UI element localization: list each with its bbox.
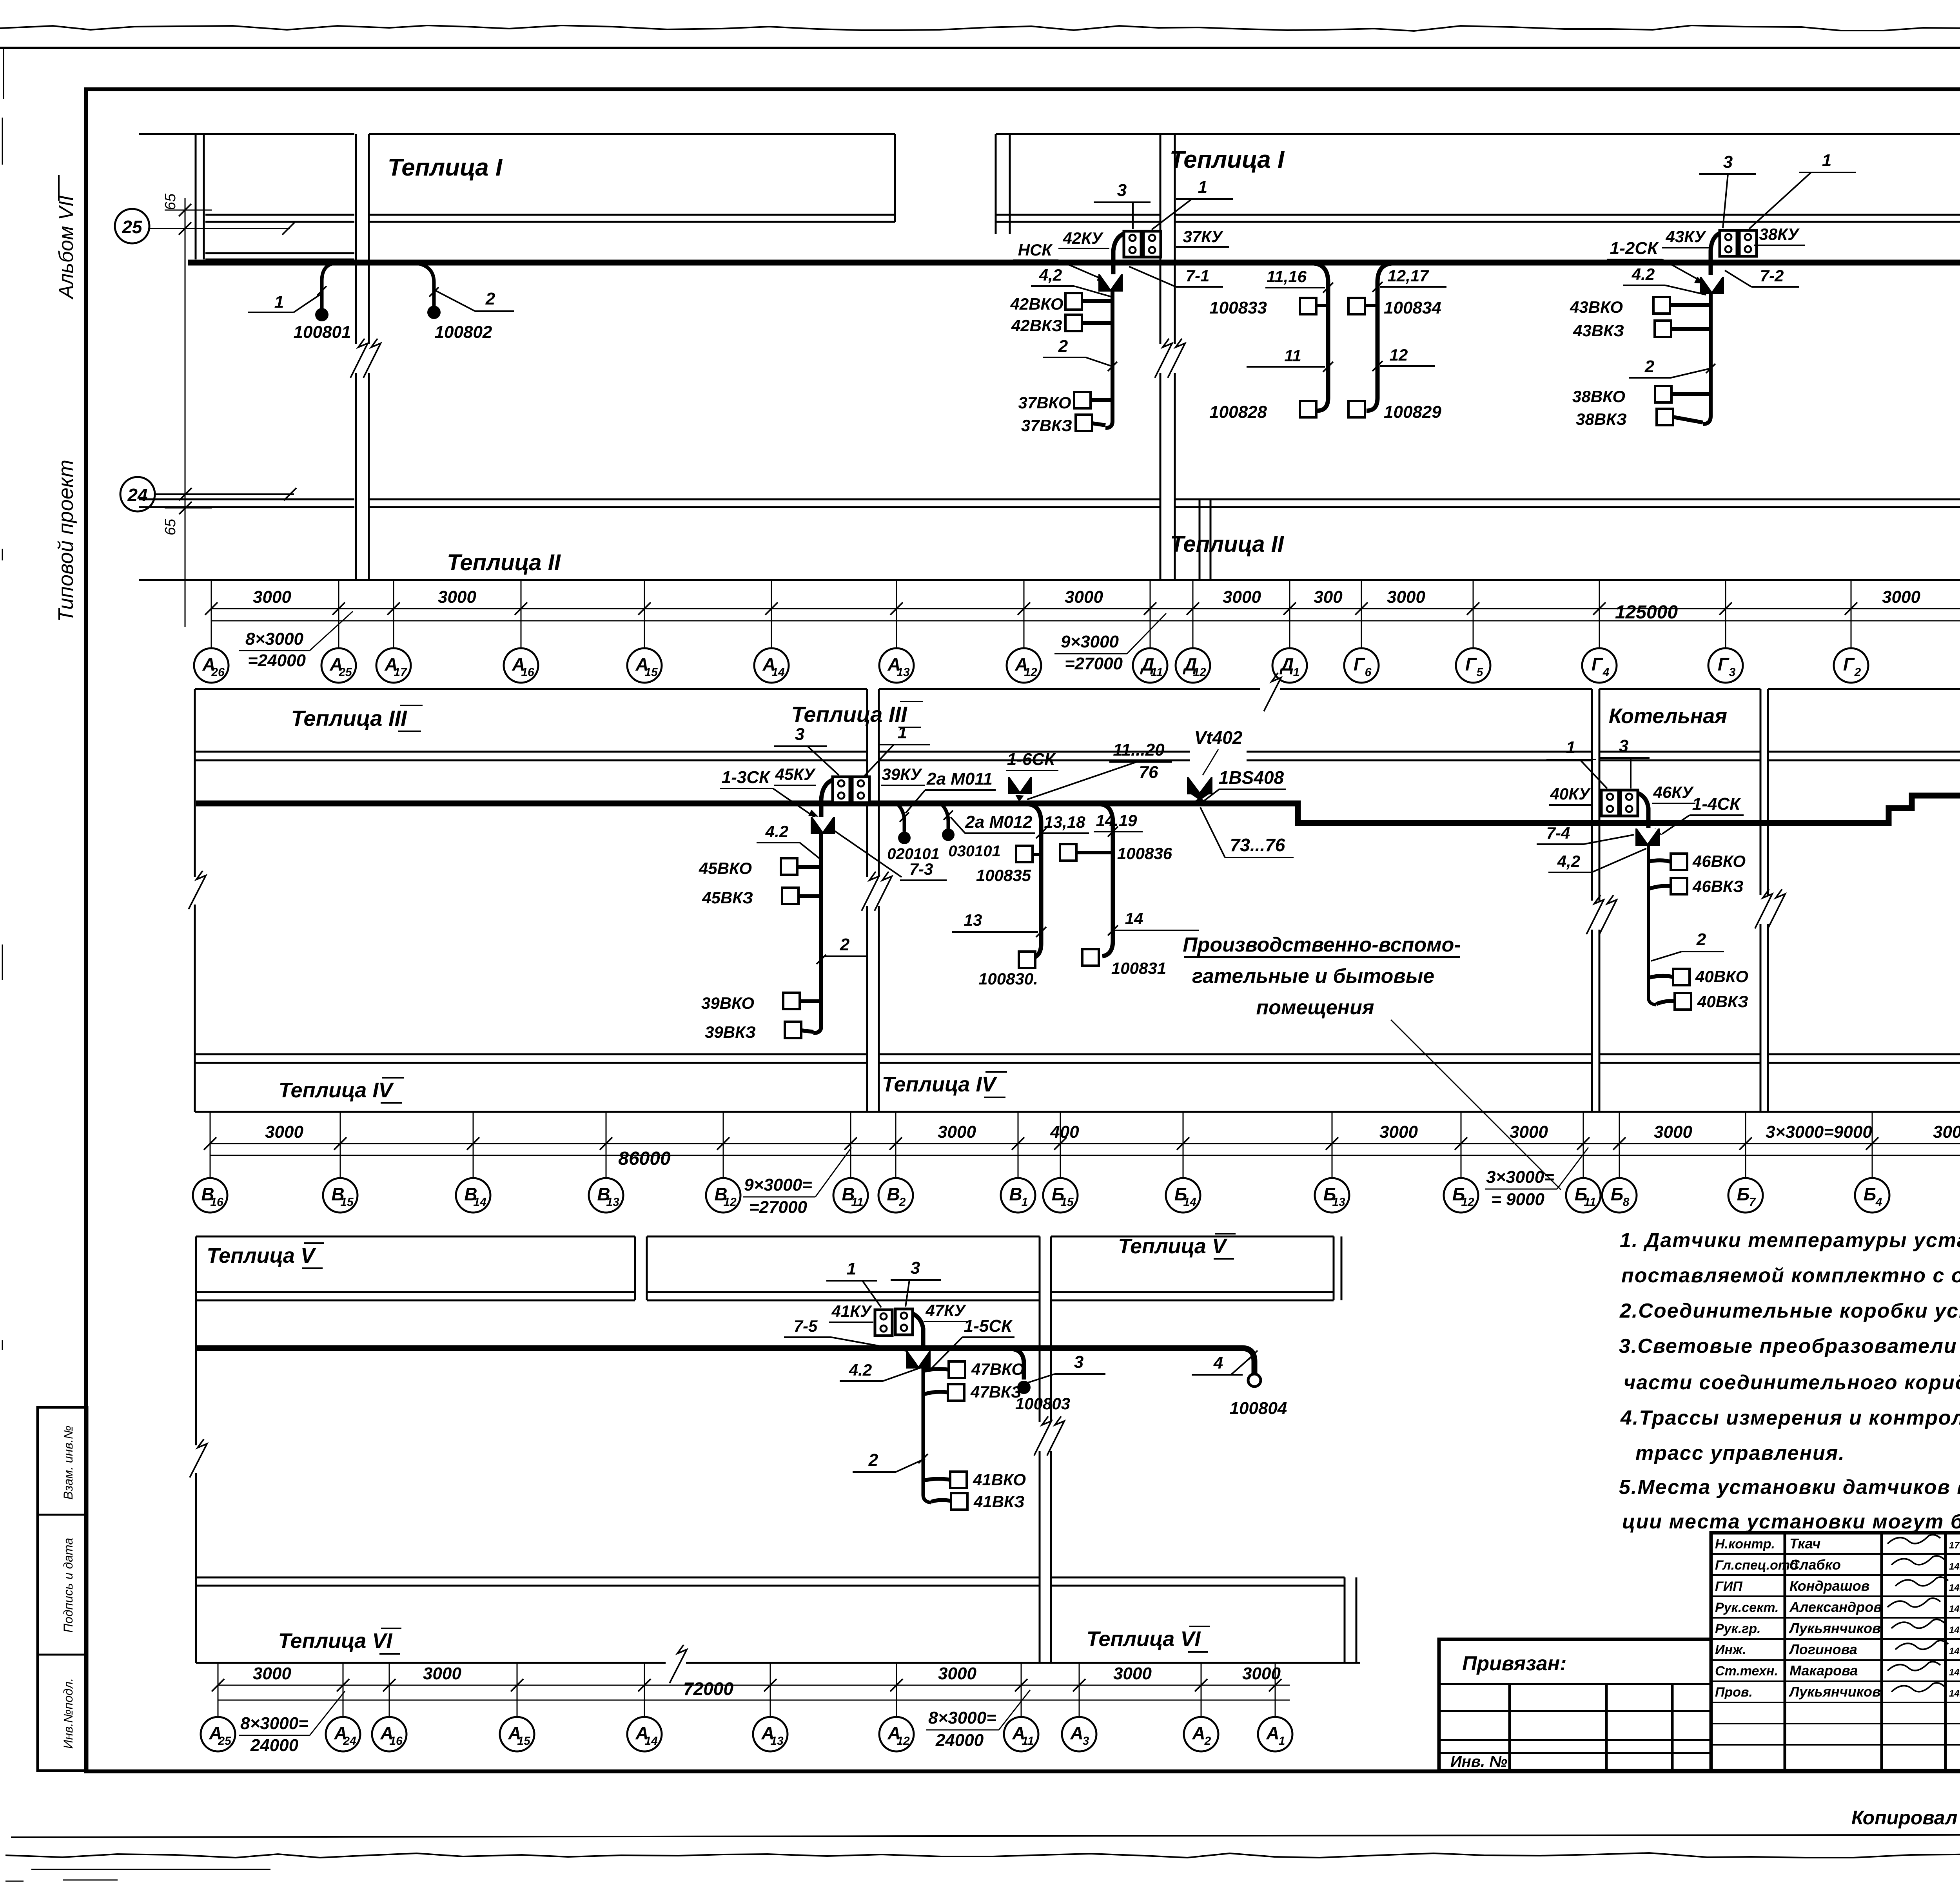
valve 1BS408 symbol: [1187, 777, 1212, 794]
svg-text:42КУ: 42КУ: [1063, 229, 1104, 247]
wire riser strip3: [923, 1369, 931, 1503]
svg-text:3000: 3000: [253, 587, 291, 607]
svg-text:4,2: 4,2: [1039, 266, 1062, 284]
svg-text:3: 3: [911, 1258, 920, 1278]
svg-text:100830.: 100830.: [978, 970, 1038, 988]
node axis А16: [372, 1717, 407, 1751]
svg-text:Типовой проект: Типовой проект: [54, 460, 78, 622]
sensor 43ВКЗ: [1655, 321, 1671, 337]
svg-text:1. Датчики температуры установ: 1. Датчики температуры установить по чер…: [1620, 1229, 1960, 1252]
node axis Б11: [1566, 1178, 1601, 1213]
svg-text:2: 2: [868, 1450, 878, 1470]
sensor 40ВКО: [1673, 969, 1690, 985]
sensor 46ВКО: [1671, 854, 1687, 870]
sensor 100829: [1348, 401, 1365, 417]
svg-text:= 9000: = 9000: [1491, 1190, 1544, 1209]
svg-text:11: 11: [1151, 666, 1163, 679]
node axis А1: [1258, 1717, 1292, 1751]
svg-text:В: В: [887, 1184, 900, 1204]
svg-text:3000: 3000: [265, 1122, 303, 1142]
wire to junction boxes 41/47: [897, 1310, 923, 1349]
sensor 39ВКО: [783, 993, 800, 1009]
svg-text:3×3000=9000: 3×3000=9000: [1766, 1122, 1872, 1142]
svg-text:73...76: 73...76: [1230, 835, 1285, 855]
cable tray strip2: [196, 796, 1960, 858]
wire drop 11,16: [1314, 263, 1328, 411]
svg-text:Vt402: Vt402: [1194, 727, 1243, 748]
node axis Б4: [1855, 1178, 1889, 1213]
junction box 41КУ: [875, 1310, 892, 1336]
wire riser cluster A: [1105, 290, 1112, 428]
node axis А26: [194, 648, 229, 683]
light sensor 1-2СК symbol: [1700, 277, 1724, 294]
svg-text:Г: Г: [1718, 654, 1730, 674]
svg-text:12: 12: [1193, 666, 1206, 679]
node axis Г3: [1708, 648, 1743, 683]
sensor dot 100802: [427, 306, 441, 319]
svg-text:Производственно-вспомо-: Производственно-вспомо-: [1183, 934, 1461, 956]
junction box 40КУ: [1601, 790, 1619, 816]
svg-text:Теплица III: Теплица III: [791, 702, 907, 727]
svg-text:7-2: 7-2: [1760, 266, 1784, 285]
title block привязан table: [1439, 1639, 1711, 1771]
svg-text:100804: 100804: [1230, 1399, 1287, 1418]
wire drop 14,19: [1101, 804, 1113, 956]
wire riser kotelnaya: [1648, 846, 1656, 1005]
svg-text:4,2: 4,2: [1557, 852, 1580, 870]
corridor walls 1 strip1: [355, 134, 357, 580]
svg-text:Инв. №: Инв. №: [1450, 1753, 1507, 1770]
svg-text:14: 14: [1125, 909, 1143, 928]
axis verticals row2: [210, 1112, 211, 1178]
svg-text:15: 15: [1060, 1196, 1074, 1209]
node axis А11: [1004, 1717, 1038, 1751]
svg-text:1: 1: [1822, 151, 1831, 170]
node axis 25: [115, 209, 149, 243]
svg-text:100836: 100836: [1117, 844, 1172, 863]
svg-text:24000: 24000: [250, 1736, 299, 1755]
svg-text:14: 14: [771, 666, 785, 679]
svg-text:1: 1: [1198, 178, 1207, 197]
svg-text:15: 15: [517, 1735, 531, 1748]
svg-text:14: 14: [644, 1735, 658, 1748]
left edge dashes: [2, 118, 3, 165]
wire drop 100803: [1012, 1349, 1024, 1380]
svg-text:Ткач: Ткач: [1789, 1535, 1820, 1552]
svg-text:1-4СК: 1-4СК: [1692, 794, 1741, 814]
svg-text:24: 24: [127, 485, 147, 505]
torn paper top edge: [0, 25, 1960, 31]
svg-text:12: 12: [1390, 346, 1408, 364]
svg-text:12: 12: [1461, 1196, 1474, 1209]
svg-text:100801: 100801: [294, 323, 351, 342]
svg-text:38КУ: 38КУ: [1759, 225, 1800, 243]
node axis В13: [589, 1178, 623, 1213]
light sensor НСК symbol: [1098, 274, 1123, 292]
svg-text:12: 12: [723, 1196, 737, 1209]
svg-text:А: А: [1070, 1723, 1083, 1743]
svg-text:Д: Д: [1279, 654, 1294, 674]
sensor 37ВКО: [1074, 392, 1091, 408]
light sensor 1-5СК symbol: [906, 1351, 931, 1369]
svg-text:24: 24: [343, 1735, 356, 1748]
light sensor 1-4СК symbol: [1635, 828, 1660, 846]
svg-text:Теплица IV: Теплица IV: [882, 1073, 998, 1096]
wall lower band double strip2: [195, 1053, 867, 1055]
sensor 45ВКО: [781, 858, 797, 875]
node axis А24: [326, 1717, 360, 1751]
svg-text:16: 16: [389, 1735, 403, 1748]
svg-text:3000: 3000: [938, 1122, 976, 1142]
svg-text:1-3СК: 1-3СК: [722, 768, 771, 787]
node axis Б13: [1315, 1178, 1349, 1213]
svg-text:47ВКЗ: 47ВКЗ: [970, 1383, 1022, 1401]
svg-text:2: 2: [840, 935, 850, 954]
node axis Б7: [1728, 1178, 1763, 1213]
svg-text:47КУ: 47КУ: [926, 1301, 967, 1320]
svg-text:3000: 3000: [1882, 587, 1920, 607]
node axis 24: [120, 477, 155, 511]
wire to junction boxes 45/39: [821, 778, 841, 817]
svg-text:3000: 3000: [1065, 587, 1103, 607]
svg-text:65: 65: [162, 518, 179, 535]
svg-text:12,17: 12,17: [1387, 266, 1429, 285]
svg-text:14: 14: [1183, 1196, 1196, 1209]
svg-text:100828: 100828: [1209, 402, 1267, 422]
sensor 41ВКЗ: [951, 1493, 967, 1510]
svg-text:6: 6: [1365, 666, 1372, 679]
svg-text:Теплица I: Теплица I: [388, 154, 503, 181]
svg-text:13: 13: [1332, 1196, 1345, 1209]
svg-text:Н.контр.: Н.контр.: [1715, 1537, 1775, 1552]
svg-text:25: 25: [122, 217, 143, 237]
corridor walls kotelnaya left: [1591, 689, 1593, 1112]
node axis Г6: [1344, 648, 1379, 683]
svg-text:7-3: 7-3: [909, 860, 933, 878]
svg-text:400: 400: [1050, 1122, 1079, 1142]
dimension lines row3: [218, 1685, 1290, 1686]
svg-text:Теплица VI: Теплица VI: [1087, 1627, 1201, 1651]
svg-text:14.01.86: 14.01.86: [1949, 1561, 1960, 1572]
svg-text:Гл.спец.отд: Гл.спец.отд: [1715, 1558, 1798, 1573]
svg-text:45ВКЗ: 45ВКЗ: [702, 888, 753, 907]
svg-text:3000: 3000: [1510, 1122, 1548, 1142]
svg-text:А: А: [1192, 1723, 1205, 1743]
svg-text:3.Световые преобразователи (д: 3.Световые преобразователи (датчики осве…: [1619, 1335, 1960, 1358]
svg-text:НСК: НСК: [1018, 241, 1053, 259]
wall left end lower double strip1: [205, 252, 354, 254]
svg-text:37КУ: 37КУ: [1183, 227, 1224, 246]
svg-text:Пров.: Пров.: [1715, 1685, 1753, 1700]
corridor walls 2 strip1: [1160, 134, 1161, 580]
svg-text:Александров: Александров: [1789, 1599, 1882, 1615]
svg-text:46ВКЗ: 46ВКЗ: [1692, 877, 1744, 896]
svg-text:65: 65: [162, 193, 179, 210]
svg-text:16: 16: [210, 1196, 223, 1209]
svg-text:39ВКЗ: 39ВКЗ: [705, 1023, 756, 1041]
svg-text:15: 15: [644, 666, 658, 679]
node axis А15: [627, 648, 662, 683]
sensor 100833: [1300, 298, 1316, 314]
svg-text:Рук.гр.: Рук.гр.: [1715, 1621, 1761, 1636]
svg-text:Г: Г: [1465, 654, 1477, 674]
wire to junction boxes 43/38: [1711, 231, 1728, 275]
axis verticals row1: [211, 580, 212, 647]
svg-text:100803: 100803: [1015, 1394, 1070, 1413]
node axis Б12: [1444, 1178, 1478, 1213]
wire sensor drop 1: [322, 263, 338, 310]
svg-text:14.01.86: 14.01.86: [1949, 1583, 1960, 1593]
wire sensor drop 2: [412, 263, 434, 308]
sensor 100834: [1348, 298, 1365, 314]
svg-text:Инж.: Инж.: [1715, 1642, 1746, 1657]
svg-text:3000: 3000: [1654, 1122, 1692, 1142]
wall lower band double strip1: [139, 499, 354, 500]
node axis А12: [879, 1717, 914, 1751]
node axis Б15: [1043, 1178, 1078, 1213]
svg-text:4: 4: [1602, 666, 1610, 679]
sensor 45ВКЗ: [782, 888, 799, 904]
junction box 43КУ: [1720, 230, 1737, 256]
light sensor 1-3СК symbol: [811, 817, 835, 834]
svg-text:Привязан:: Привязан:: [1462, 1652, 1566, 1675]
node axis А25: [201, 1717, 235, 1751]
svg-text:100831: 100831: [1111, 959, 1166, 977]
node axis Б14: [1166, 1178, 1200, 1213]
svg-text:100802: 100802: [435, 323, 492, 342]
dimension lines row1: [211, 608, 1960, 609]
light sensor 1-6СК symbol: [1008, 777, 1032, 794]
svg-text:1: 1: [1566, 738, 1575, 757]
sensor 42ВКЗ: [1065, 315, 1082, 331]
label Vt402: [1190, 743, 1247, 766]
svg-text:3000: 3000: [1223, 587, 1261, 607]
sensor dot 020101: [898, 832, 911, 844]
svg-text:8×3000: 8×3000: [245, 629, 304, 649]
wall top strip3: [196, 1236, 635, 1238]
svg-text:14: 14: [473, 1196, 486, 1209]
title block personnel table: [1711, 1533, 1960, 1771]
node axis А14: [754, 648, 789, 683]
svg-text:17: 17: [394, 666, 407, 679]
wire drop 13,18: [1029, 804, 1041, 959]
svg-text:38ВКО: 38ВКО: [1572, 387, 1625, 406]
node axis В11: [833, 1178, 868, 1213]
svg-text:3: 3: [1723, 152, 1733, 172]
svg-text:25: 25: [218, 1735, 232, 1748]
node axis Г2: [1834, 648, 1868, 683]
svg-text:72000: 72000: [683, 1679, 733, 1699]
svg-text:Лукьянчиков: Лукьянчиков: [1788, 1620, 1881, 1636]
node axis А12: [1007, 648, 1041, 683]
svg-text:Теплица III: Теплица III: [291, 706, 407, 731]
svg-text:Инв.№подл.: Инв.№подл.: [61, 1678, 75, 1749]
svg-text:40ВКЗ: 40ВКЗ: [1697, 992, 1748, 1011]
node axis А3: [1062, 1717, 1096, 1751]
svg-text:3000: 3000: [1933, 1122, 1960, 1142]
svg-text:13: 13: [964, 911, 982, 929]
wire riser cluster C: [1703, 292, 1711, 424]
svg-text:помещения: помещения: [1256, 996, 1374, 1019]
wire riser cluster 45/39: [813, 833, 821, 1033]
svg-text:Теплица II: Теплица II: [447, 550, 561, 575]
junction box 46КУ: [1621, 790, 1638, 816]
node axis В16: [193, 1178, 227, 1213]
svg-text:11: 11: [851, 1196, 863, 1209]
svg-text:3000: 3000: [938, 1664, 976, 1683]
node axis Б8: [1602, 1178, 1637, 1213]
svg-text:трасс управления.: трасс управления.: [1635, 1442, 1845, 1465]
torn paper bottom edge: [5, 1853, 1960, 1858]
svg-text:Теплица V: Теплица V: [207, 1244, 316, 1267]
svg-text:2: 2: [1696, 930, 1706, 949]
svg-text:7: 7: [1749, 1196, 1756, 1209]
wall left end strip1: [195, 134, 197, 259]
svg-text:Котельная: Котельная: [1609, 704, 1727, 728]
wall top strip1: [139, 133, 354, 135]
svg-text:3: 3: [1117, 181, 1127, 200]
svg-text:16: 16: [521, 666, 534, 679]
corridor walls strip3: [1039, 1236, 1041, 1663]
svg-text:3: 3: [1619, 736, 1628, 756]
svg-text:7-5: 7-5: [794, 1317, 818, 1335]
svg-text:3×3000=: 3×3000=: [1486, 1167, 1554, 1187]
svg-text:4.2: 4.2: [849, 1361, 872, 1379]
svg-text:14.01.86: 14.01.86: [1949, 1667, 1960, 1678]
outer bottom line: [11, 1834, 1960, 1837]
corridor walls kotelnaya right: [1760, 689, 1762, 1112]
svg-text:13: 13: [606, 1196, 619, 1209]
svg-text:1: 1: [274, 292, 284, 312]
svg-text:41ВКО: 41ВКО: [973, 1470, 1026, 1489]
svg-text:9×3000: 9×3000: [1061, 632, 1119, 651]
svg-text:39КУ: 39КУ: [882, 765, 923, 783]
svg-text:15: 15: [340, 1196, 354, 1209]
svg-text:3000: 3000: [1387, 587, 1425, 607]
wall bottom double strip1: [205, 214, 354, 216]
svg-text:13,18: 13,18: [1044, 813, 1085, 831]
wall bottom double upper strip2: [195, 751, 867, 753]
wire hook 020101: [898, 804, 904, 832]
junction box 45КУ: [833, 777, 850, 803]
svg-text:2.Соединительные коробки уст: 2.Соединительные коробки установить на л…: [1619, 1300, 1960, 1322]
sensor 37ВКЗ: [1076, 415, 1092, 431]
svg-text:46ВКО: 46ВКО: [1692, 852, 1746, 870]
svg-text:Взам. инв.№: Взам. инв.№: [61, 1425, 75, 1499]
svg-text:3000: 3000: [423, 1664, 461, 1683]
svg-text:14.01.86: 14.01.86: [1949, 1625, 1960, 1635]
svg-text:3: 3: [1074, 1352, 1083, 1372]
svg-text:части соединительного коридо: части соединительного коридора в местах …: [1624, 1371, 1960, 1394]
sensor circle 100804: [1248, 1374, 1261, 1387]
sensor 100830: [1019, 952, 1035, 968]
svg-text:125000: 125000: [1615, 602, 1678, 623]
svg-text:4.2: 4.2: [1632, 265, 1655, 283]
node axis А16: [504, 648, 538, 683]
svg-text:5: 5: [1477, 666, 1484, 679]
svg-text:030101: 030101: [948, 843, 1000, 860]
wall left strip3: [195, 1236, 197, 1663]
wall bottom lower band strip1: [139, 579, 1960, 581]
node axis В15: [323, 1178, 358, 1213]
svg-text:1: 1: [1279, 1735, 1285, 1748]
svg-text:1: 1: [898, 723, 907, 742]
sensor 47ВКО: [949, 1361, 965, 1378]
node axis А17: [376, 648, 411, 683]
svg-text:14.01.86: 14.01.86: [1949, 1604, 1960, 1614]
svg-text:2: 2: [485, 289, 495, 308]
svg-text:100835: 100835: [976, 866, 1031, 885]
sensor dot 100803: [1017, 1381, 1031, 1394]
svg-text:3000: 3000: [1242, 1664, 1281, 1683]
svg-text:3: 3: [1083, 1735, 1089, 1748]
svg-text:1: 1: [1022, 1196, 1028, 1209]
svg-text:Альбом VII: Альбом VII: [55, 195, 78, 299]
svg-text:3000: 3000: [253, 1664, 291, 1683]
svg-text:гательные и бытовые: гательные и бытовые: [1192, 965, 1434, 988]
svg-text:Логинова: Логинова: [1788, 1641, 1857, 1657]
wall bottom lower strip3: [196, 1662, 1360, 1664]
node axis Г4: [1582, 648, 1617, 683]
svg-text:1: 1: [847, 1259, 856, 1278]
svg-text:42ВКЗ: 42ВКЗ: [1011, 316, 1062, 335]
svg-text:100834: 100834: [1384, 298, 1441, 317]
svg-text:14.01.86: 14.01.86: [1949, 1688, 1960, 1699]
svg-text:2: 2: [1854, 666, 1861, 679]
svg-text:25: 25: [338, 666, 352, 679]
svg-text:1-6СК: 1-6СК: [1007, 750, 1056, 769]
svg-text:4.2: 4.2: [765, 822, 788, 841]
svg-text:14.01.86: 14.01.86: [1949, 1646, 1960, 1657]
node axis В2: [878, 1178, 913, 1213]
cable tray strip3: [196, 1348, 1254, 1374]
svg-text:43ВКЗ: 43ВКЗ: [1573, 321, 1624, 340]
svg-text:40КУ: 40КУ: [1550, 785, 1592, 803]
svg-text:ГИП: ГИП: [1715, 1579, 1743, 1594]
svg-text:Б: Б: [1864, 1184, 1877, 1204]
sensor 41ВКО: [950, 1472, 967, 1488]
svg-text:2: 2: [1204, 1735, 1211, 1748]
svg-text:4.Трассы измерения и контро: 4.Трассы измерения и контроля проложить …: [1620, 1407, 1960, 1429]
svg-text:Рук.сект.: Рук.сект.: [1715, 1600, 1779, 1615]
svg-text:3: 3: [1729, 666, 1736, 679]
svg-text:020101: 020101: [887, 845, 939, 863]
svg-text:42ВКО: 42ВКО: [1010, 295, 1063, 313]
svg-text:100829: 100829: [1384, 402, 1441, 422]
svg-text:43ВКО: 43ВКО: [1570, 298, 1623, 316]
svg-text:1-5СК: 1-5СК: [964, 1316, 1013, 1336]
svg-text:Теплица IV: Теплица IV: [279, 1079, 394, 1102]
wall right box strip3: [1333, 1236, 1335, 1300]
svg-text:37ВКО: 37ВКО: [1018, 393, 1071, 412]
dimension 65 top: [185, 198, 186, 627]
wall section divider strip3: [634, 1236, 636, 1300]
svg-text:39ВКО: 39ВКО: [701, 994, 754, 1012]
svg-text:Макарова: Макарова: [1789, 1662, 1858, 1679]
corridor walls 1 strip2: [866, 689, 868, 1112]
svg-text:40ВКО: 40ВКО: [1695, 967, 1748, 986]
svg-text:Г: Г: [1354, 654, 1365, 674]
svg-text:17.01.86: 17.01.86: [1949, 1540, 1960, 1551]
node axis В1: [1001, 1178, 1035, 1213]
svg-text:=24000: =24000: [248, 651, 306, 670]
svg-text:1: 1: [1293, 666, 1300, 679]
node axis В12: [706, 1178, 740, 1213]
svg-text:38ВКЗ: 38ВКЗ: [1576, 410, 1627, 428]
svg-text:=27000: =27000: [749, 1198, 808, 1217]
sensor 40ВКЗ: [1675, 993, 1691, 1010]
node axis Г5: [1456, 648, 1490, 683]
